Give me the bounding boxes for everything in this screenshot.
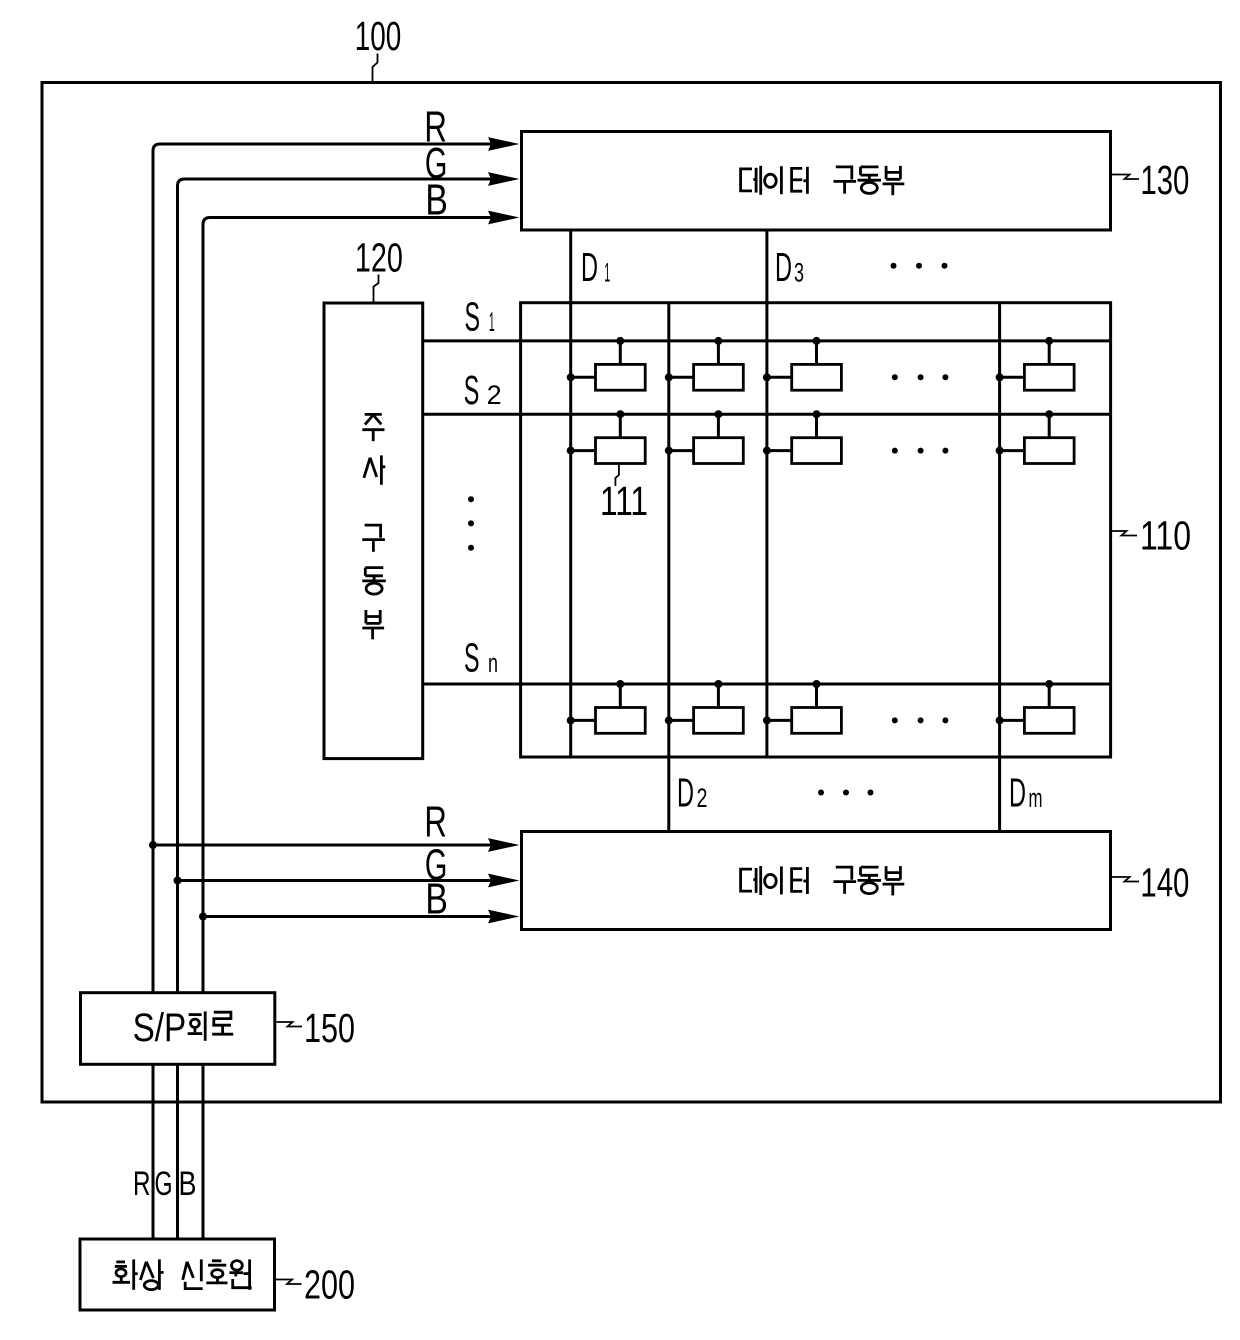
data line Dm	[998, 303, 1001, 832]
arrowhead B top	[488, 211, 520, 225]
svg-text:200: 200	[304, 1262, 355, 1308]
svg-text:1: 1	[604, 258, 610, 288]
pixel cell 111 (row S2, col D3)	[763, 410, 842, 463]
panel outline 100	[42, 83, 1221, 1103]
leader 200	[276, 1280, 302, 1285]
leader squiggle 111	[615, 465, 619, 487]
pixel array box 110	[521, 303, 1111, 757]
ellipsis dots (pixel row S2)	[892, 448, 949, 454]
scan line S1	[423, 339, 1111, 342]
svg-text:D: D	[1009, 770, 1026, 816]
svg-text:R: R	[133, 1165, 151, 1203]
leader 130	[1112, 175, 1139, 180]
wire B vertical bus	[202, 223, 205, 1239]
svg-text:B: B	[425, 176, 448, 225]
arrowhead B bottom	[488, 910, 520, 924]
leader squiggle 100	[373, 54, 378, 83]
svg-text:R: R	[424, 798, 447, 847]
pixel cell 111 (row Sn, col Dm)	[996, 680, 1075, 733]
svg-text:D: D	[677, 770, 694, 816]
pixel cell 111 (row S2, col D1)	[567, 410, 646, 463]
wire G (bottom)	[178, 879, 493, 882]
S/P circuit box 150	[81, 993, 275, 1065]
data line D1	[569, 230, 572, 757]
svg-text:G: G	[155, 1165, 173, 1203]
leader 140	[1112, 877, 1139, 882]
pixel cell 111 (row S2, col Dm)	[996, 410, 1075, 463]
scan line S2	[423, 413, 1111, 416]
svg-text:3: 3	[794, 258, 804, 288]
ellipsis dots (top data lines)	[891, 263, 948, 269]
svg-text:2: 2	[487, 380, 502, 410]
arrowhead R top	[488, 137, 520, 151]
svg-text:D: D	[581, 244, 598, 290]
text: 화상 신호원	[113, 1259, 252, 1289]
svg-text:2: 2	[697, 783, 708, 813]
svg-text:D: D	[775, 244, 792, 290]
svg-text:100: 100	[355, 13, 402, 59]
svg-text:1: 1	[489, 307, 495, 337]
svg-text:140: 140	[1140, 860, 1189, 906]
text: 데이터 구동부 (bottom)	[741, 866, 905, 895]
pixel cell 111 (row S2, col D2)	[665, 410, 744, 463]
pixel cell 111 (row S1, col D1)	[567, 337, 646, 390]
svg-text:S/P: S/P	[133, 1006, 187, 1050]
data line D2	[667, 303, 670, 832]
text: S/P회로	[133, 1006, 234, 1050]
image signal source box 200	[80, 1239, 275, 1310]
pixel cell 111 (row S1, col Dm)	[996, 337, 1075, 390]
wire G (top)	[178, 179, 493, 186]
arrowhead R bottom	[488, 838, 520, 852]
data driver box 140	[522, 832, 1111, 930]
svg-text:120: 120	[355, 235, 403, 281]
text: 주사 구동부 (vertical)	[362, 414, 386, 639]
pixel cell 111 (row Sn, col D1)	[567, 680, 646, 733]
data driver box 130	[522, 132, 1111, 231]
ellipsis dots (pixel row S1)	[892, 374, 949, 380]
ellipsis dots (bottom data lines)	[818, 790, 874, 796]
wire B (bottom)	[203, 915, 492, 918]
svg-text:S: S	[464, 367, 480, 413]
leader squiggle 120	[374, 275, 379, 303]
svg-text:m: m	[1029, 783, 1043, 813]
pixel cell 111 (row Sn, col D2)	[665, 680, 744, 733]
svg-text:S: S	[465, 294, 481, 340]
svg-text:n: n	[488, 648, 498, 678]
svg-text:B: B	[179, 1165, 197, 1203]
pixel cell 111 (row S1, col D3)	[763, 337, 842, 390]
wire G vertical bus	[176, 185, 179, 1239]
wire R (bottom)	[153, 844, 492, 847]
svg-text:150: 150	[304, 1005, 355, 1051]
junction node G	[174, 877, 182, 885]
text: 데이터 구동부 (top)	[741, 166, 905, 195]
junction node R	[149, 841, 157, 849]
wire R (top)	[153, 144, 492, 151]
pixel cell 111 (row Sn, col D3)	[763, 680, 842, 733]
wire B (top)	[203, 218, 492, 225]
arrowhead G top	[488, 172, 520, 186]
leader 150	[277, 1022, 303, 1027]
svg-text:110: 110	[1140, 513, 1191, 559]
pixel cell 111 (row S1, col D2)	[665, 337, 744, 390]
scan driver box 120	[324, 303, 423, 759]
svg-text:130: 130	[1140, 157, 1189, 203]
scan line Sn	[423, 683, 1111, 686]
ellipsis dots (pixel row Sn)	[892, 717, 949, 723]
wire R vertical bus	[152, 150, 155, 1239]
ellipsis dots (scan lines, vertical)	[468, 496, 474, 551]
svg-text:B: B	[425, 875, 448, 924]
svg-text:111: 111	[600, 478, 648, 524]
junction node B	[199, 913, 207, 921]
svg-text:S: S	[464, 635, 480, 681]
data line D3	[765, 230, 768, 757]
leader 110	[1112, 531, 1137, 536]
arrowhead G bottom	[488, 874, 520, 888]
